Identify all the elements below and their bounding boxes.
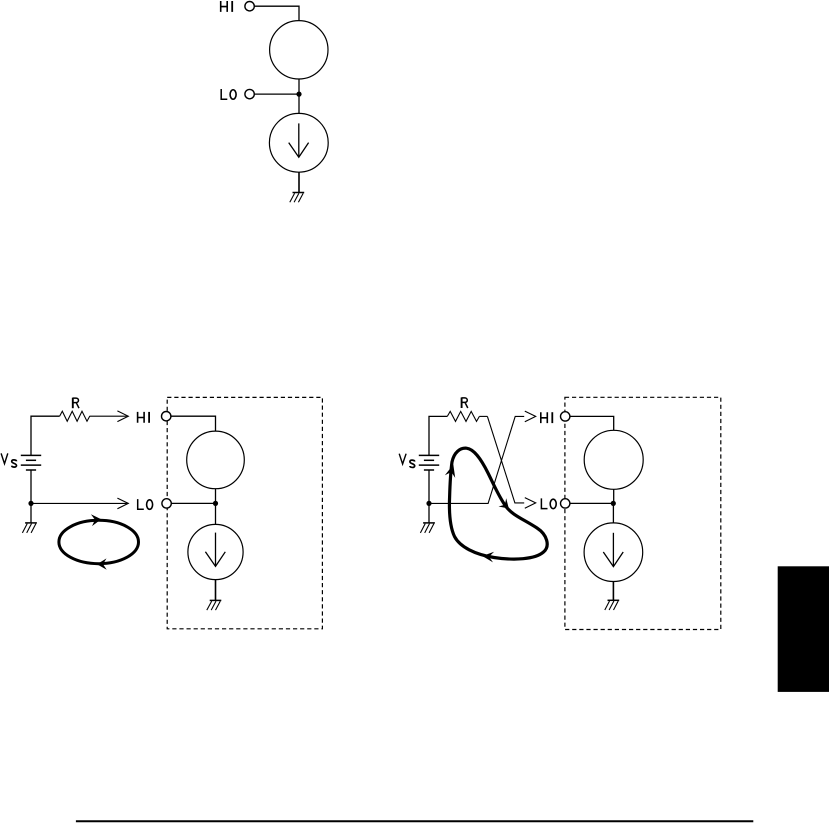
current source I right circuit: [584, 523, 643, 582]
voltmeter circle right circuit: [584, 430, 643, 489]
dashed DMM box left: [167, 397, 322, 628]
wire node to current source left: [215, 503, 217, 524]
current loop ellipse left: [59, 520, 139, 563]
wire Vs to resistor right: [429, 416, 447, 455]
wire current source to ground right box: [612, 582, 614, 601]
wire node to crossover diagonal to HI right: [428, 416, 524, 503]
terminal HI left circuit: [162, 412, 171, 421]
battery Vs left circuit: [21, 455, 41, 470]
current loop bean right: [449, 448, 547, 559]
wire LO terminal to node right: [570, 502, 614, 504]
wire node to ground right outside: [428, 503, 430, 523]
resistor R right circuit: [447, 411, 479, 421]
resistor R left circuit: [60, 411, 90, 421]
arrowhead loop diagonal right: [499, 498, 509, 508]
node battery junction dot left: [28, 501, 33, 506]
terminal HI right circuit: [561, 412, 570, 421]
ground inside box left: [207, 600, 222, 610]
wire current source to ground top: [298, 172, 300, 192]
label Vs left circuit: [1, 453, 16, 467]
wire node to current source top: [298, 94, 300, 114]
node LO junction dot right box: [611, 501, 616, 506]
terminal LO top circuit: [245, 89, 254, 98]
wire HI terminal to voltmeter right: [570, 416, 614, 430]
arrowhead loop top left: [91, 514, 101, 526]
footer rule: [76, 820, 753, 822]
node battery junction dot right: [426, 501, 431, 506]
label HI top circuit: [221, 1, 233, 12]
wire LO terminal to node left: [171, 502, 215, 504]
label Vs right circuit: [399, 454, 415, 468]
wire current source to ground left box: [215, 580, 217, 601]
arrowhead loop bottom right: [482, 552, 494, 563]
wire HI terminal to voltmeter left: [171, 416, 216, 431]
terminal LO left circuit: [162, 499, 171, 508]
wire voltmeter to LO node left: [215, 489, 217, 504]
wire crossover diagonal to LO right: [487, 416, 524, 503]
label LO left circuit: [138, 499, 153, 509]
voltmeter circle left circuit: [187, 431, 245, 489]
wire node to ground left outside: [30, 503, 32, 523]
wire LO terminal to node top: [254, 93, 299, 95]
arrowhead open HI right: [525, 411, 536, 422]
wire node to LO arrow left: [31, 502, 127, 504]
arrowhead loop left right: [445, 465, 455, 478]
label HI right circuit: [541, 412, 553, 423]
dashed DMM box right: [565, 397, 721, 629]
chapter tab black block: [778, 566, 829, 692]
arrowhead open LO left: [117, 498, 128, 509]
arrowhead open HI left: [117, 411, 128, 422]
ground top circuit: [290, 193, 304, 203]
current source I left circuit: [188, 524, 243, 579]
current source I top circuit: [269, 113, 328, 172]
terminal HI top circuit: [245, 2, 254, 11]
label LO top circuit: [221, 89, 236, 99]
node LO junction dot left box: [213, 501, 218, 506]
voltmeter circle top circuit: [270, 21, 328, 79]
wire HI terminal to voltmeter top: [254, 6, 299, 20]
arrowhead loop bottom left: [97, 558, 107, 569]
ground inside box right: [605, 600, 619, 610]
label HI left circuit: [138, 412, 150, 423]
wire battery to node right: [428, 470, 430, 503]
arrowhead open LO right: [525, 498, 536, 509]
wire Vs to resistor left: [31, 416, 60, 455]
ground battery left: [22, 523, 37, 533]
ground battery right: [420, 523, 435, 533]
wire node to current source right: [612, 503, 614, 523]
label R right circuit: [462, 398, 468, 409]
wire voltmeter to LO node right: [613, 489, 615, 503]
wire resistor to HI arrow left: [90, 415, 127, 417]
terminal LO right circuit: [561, 499, 570, 508]
wire voltmeter to LO node top: [298, 79, 300, 94]
wire battery to node left: [30, 470, 32, 503]
node junction dot top circuit: [296, 92, 301, 97]
label LO right circuit: [541, 498, 556, 508]
wire resistor to crossover right: [479, 415, 487, 417]
battery Vs right circuit: [419, 455, 439, 470]
label R left circuit: [73, 398, 79, 409]
